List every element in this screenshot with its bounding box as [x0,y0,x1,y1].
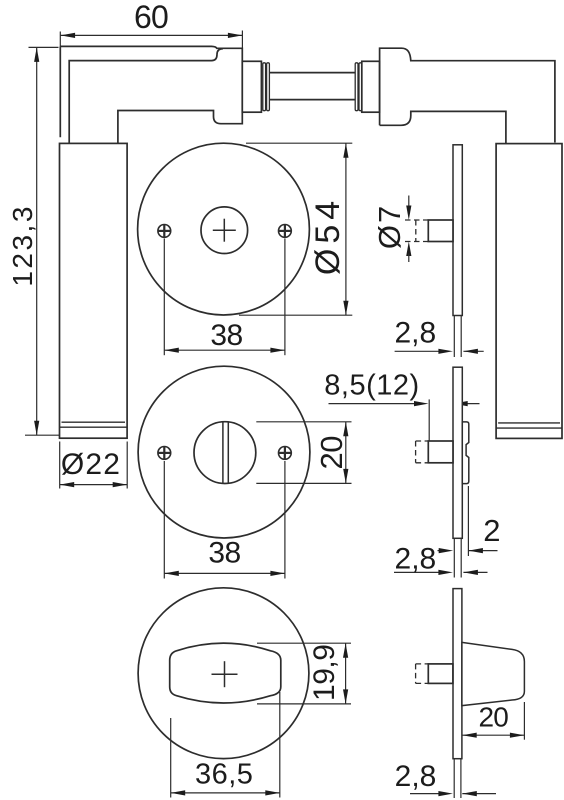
spindle hole with centre cross [201,207,248,254]
svg-text:19,9: 19,9 [308,645,341,701]
thumbturn knob side profile V2 [462,422,469,484]
svg-text:2,8: 2,8 [394,317,436,350]
svg-text:36,5: 36,5 [195,759,253,791]
screw S3 (left, rosette R2) [158,447,171,460]
svg-text:38: 38 [208,537,240,570]
svg-text:123,3: 123,3 [7,204,38,287]
svg-text:38: 38 [210,319,242,352]
dimension 19,9 (knob height) [257,643,351,704]
dimension 2 (thumbturn wing height) [438,486,500,556]
dimension 38 (screw spacing R2) [164,461,285,579]
svg-text:2,8: 2,8 [395,543,437,576]
dimension 38 (screw spacing R1) [164,239,285,356]
rosette R3 (WC rose outside, front view) [138,588,309,759]
svg-text:Ø22: Ø22 [61,448,121,481]
dimension 20 (thumbturn diameter) [256,422,351,484]
right lever handle (neck and bend) [380,48,555,143]
dimension 2,8 (rose thickness V1) [394,316,483,357]
dimension diameter 22 (grip tube) [60,442,128,489]
screw S2 (right, rosette R1) [279,225,292,238]
left grip tube with end ring [60,143,128,438]
svg-text:20: 20 [479,702,509,733]
thumbturn knob with slot (front view) [194,422,256,484]
svg-text:Ø7: Ø7 [372,204,407,249]
dimension 2,8 (rose thickness V3) [395,759,496,798]
rosette R2 (WC rose inside, front view) [138,366,310,538]
rosette R1 side view plate [453,145,462,316]
dimension diameter 7 (spindle) [372,196,411,263]
svg-text:2: 2 [483,513,499,548]
dimension 8,5(12) (spindle protrusion) [324,370,479,441]
dimension 36,5 (knob width) [171,692,280,798]
svg-text:20: 20 [314,436,349,470]
screw S4 (right, rosette R2) [279,447,292,460]
svg-text:8,5(12): 8,5(12) [324,370,419,402]
svg-text:Ø54: Ø54 [309,196,347,275]
dimension 20 (knob depth V3) [462,702,524,740]
right grip tube with end ring [496,144,562,439]
rosette R1 (round rose, front view) [138,143,310,315]
rosette R3 side view plate [453,589,462,759]
dimension 2,8 (rose thickness V2) [394,539,488,578]
rosette R2 side view plate [453,367,462,538]
knob side profile V3 (cone) [462,642,525,705]
dimension diameter 54 (rosette R1) [239,143,352,315]
svg-text:60: 60 [134,0,168,35]
dimension 123,3 (overall handle height) [7,47,60,435]
square spindle stub (side view V3) [416,664,453,684]
square spindle stub (side view V2) [416,441,453,463]
square spindle stub (side view V1, hidden part dashed) [405,220,453,242]
dimension 60 (lever arm length) [60,0,242,48]
screw S1 (left, rosette R1) [158,225,171,238]
emergency release knob with cross (outside) [170,643,281,703]
square spindle with collars and rings [242,61,379,112]
svg-text:2,8: 2,8 [395,760,437,793]
left lever handle (neck and bend) [60,46,242,143]
